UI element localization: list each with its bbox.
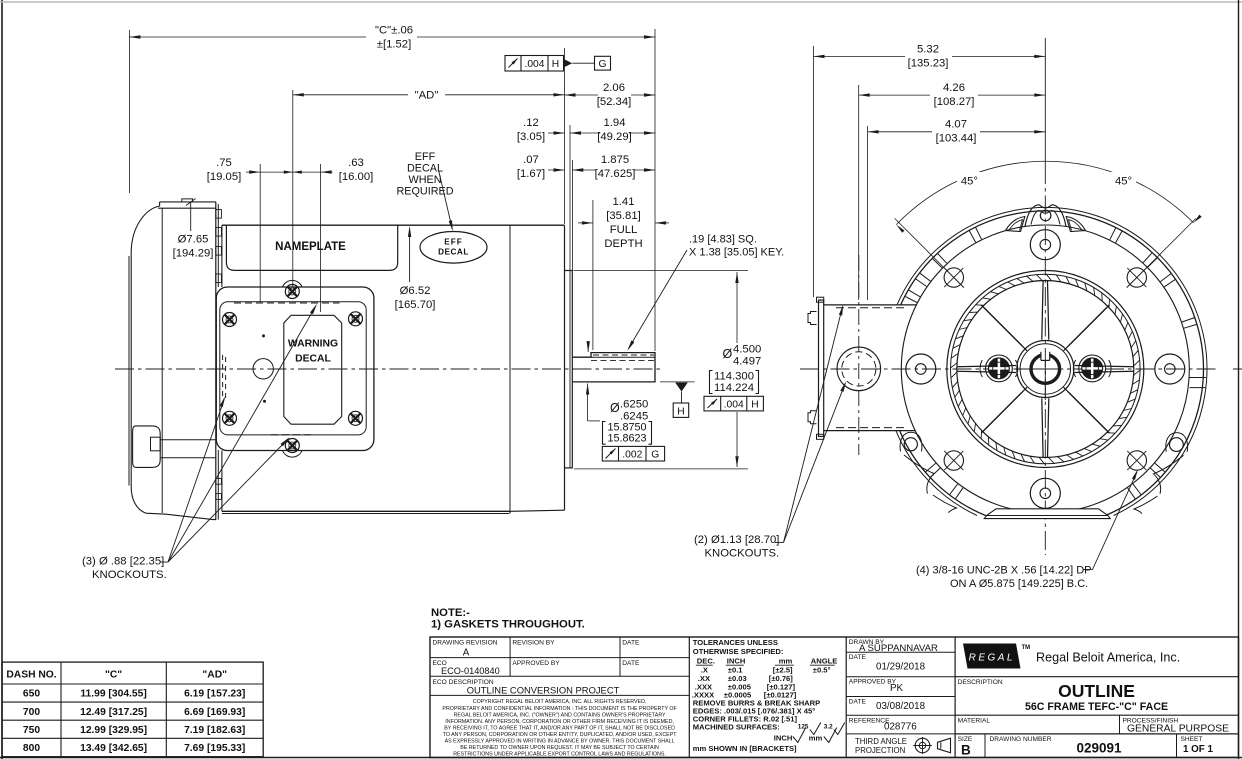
svg-text:114.224: 114.224 [714,382,754,394]
svg-text:COPYRIGHT REGAL BELOIT AMERICA: COPYRIGHT REGAL BELOIT AMERICA, INC. ALL… [473,699,647,705]
svg-text:[1.67]: [1.67] [517,168,545,180]
svg-text:[49.29]: [49.29] [597,131,632,143]
bottom foot plate [984,509,1110,519]
svg-text:1.94: 1.94 [604,117,626,129]
fan cover louvers [216,210,222,219]
shaft key hidden lines [591,360,655,362]
45 degree construction lines [895,218,1196,287]
svg-text:ON A Ø5.875 [149.225] B.C.: ON A Ø5.875 [149.225] B.C. [950,578,1088,590]
svg-text:1 OF 1: 1 OF 1 [1183,744,1213,755]
svg-text:(2) Ø1.13 [28.70]: (2) Ø1.13 [28.70] [694,534,779,546]
svg-text:Regal Beloit America, Inc.: Regal Beloit America, Inc. [1036,651,1180,665]
svg-text:GENERAL PURPOSE: GENERAL PURPOSE [1127,724,1229,735]
svg-text:INCH: INCH [774,734,793,743]
svg-text:4.26: 4.26 [943,82,965,94]
svg-text:THIRD ANGLE: THIRD ANGLE [855,737,907,746]
svg-text:3.2: 3.2 [824,724,833,731]
svg-text:DASH NO.: DASH NO. [6,669,56,680]
svg-text:TO ANY PERSON, CORPORATION OR: TO ANY PERSON, CORPORATION OR OTHER ENTI… [443,732,678,738]
dimension 4.07 [868,119,1046,300]
svg-text:APPROVED BY: APPROVED BY [512,660,560,667]
svg-text:1.875: 1.875 [601,154,629,166]
dimension 1.94 and .12 [517,117,655,143]
svg-text:INFORMATION. ANY PERSON, CORPO: INFORMATION. ANY PERSON, CORPORATION OR … [445,719,674,725]
svg-text:mm: mm [809,734,823,743]
fan cover bottom clip [133,426,161,468]
end view ring fins [905,227,1206,498]
svg-text:03/08/2018: 03/08/2018 [876,701,926,712]
svg-text:[194.29]: [194.29] [173,248,214,260]
svg-text:6.19 [157.23]: 6.19 [157.23] [184,689,245,700]
svg-text:[19.05]: [19.05] [207,171,242,183]
svg-text:01/29/2018: 01/29/2018 [876,662,926,673]
tapped holes note (4) [916,469,1138,590]
conduit box corner screws [223,312,363,426]
svg-text:±[1.52]: ±[1.52] [377,39,411,51]
svg-text:2.06: 2.06 [603,82,625,94]
dimension AD [293,90,565,288]
knockouts note (2) [694,304,846,559]
tolerance block [692,638,845,753]
svg-text:DATE: DATE [849,699,867,706]
svg-text:56C FRAME TEFC-"C" FACE: 56C FRAME TEFC-"C" FACE [1025,701,1168,713]
dimension 1.875 and .07 [517,154,655,180]
svg-text:KNOCKOUTS.: KNOCKOUTS. [705,548,780,560]
svg-text:12.99 [329.95]: 12.99 [329.95] [80,725,147,736]
dimension 2.06 shaft [565,48,656,270]
svg-text:REGAL BELOIT AMERICA, INC. ("O: REGAL BELOIT AMERICA, INC. ("OWNER") AND… [454,712,666,718]
svg-text:4.07: 4.07 [945,119,967,131]
svg-text:H: H [751,400,758,411]
dia 6.52 leader [395,226,436,311]
svg-text:[47.625]: [47.625] [595,168,636,180]
svg-text:NAMEPLATE: NAMEPLATE [275,241,346,253]
svg-text:.75: .75 [216,157,232,169]
svg-text:G: G [598,59,606,70]
EFF DECAL WHEN REQUIRED note [397,151,454,231]
C-face rabbet boss [565,271,573,468]
material row [955,715,1238,734]
svg-text:PROJECTION: PROJECTION [855,746,905,755]
svg-text:EFF: EFF [415,151,436,163]
end view cardinal holes [906,230,1185,509]
svg-text:.6250: .6250 [620,399,648,411]
svg-text:OTHERWISE SPECIFIED:: OTHERWISE SPECIFIED: [693,647,784,656]
knockout hole end view [837,347,881,391]
motor body [222,225,565,513]
svg-text:13.49 [342.65]: 13.49 [342.65] [80,743,147,754]
top lifting lug [1006,205,1086,232]
svg-text:DECAL: DECAL [407,163,443,175]
svg-text:Ø: Ø [610,401,620,415]
svg-text:DEC.: DEC. [697,657,715,666]
svg-text:OUTLINE CONVERSION PROJECT: OUTLINE CONVERSION PROJECT [467,685,620,696]
dimension 1.41 full depth [578,196,669,350]
svg-text:DECAL: DECAL [295,354,331,365]
svg-text:12.49 [317.25]: 12.49 [317.25] [80,707,147,718]
svg-text:DESCRIPTION: DESCRIPTION [958,679,1003,686]
svg-text:.X: .X [701,665,708,674]
svg-text:15.8750: 15.8750 [607,421,646,433]
side view: fan cover [129,199,221,520]
svg-text:.12: .12 [523,117,539,129]
svg-text:PK: PK [890,683,904,694]
bottom left lug [900,432,934,493]
svg-text:EFF: EFF [444,238,462,247]
svg-text:B: B [961,743,971,758]
svg-text:Ø7.65: Ø7.65 [178,234,209,246]
svg-text:TOLERANCES UNLESS: TOLERANCES UNLESS [693,638,778,647]
svg-text:mm: mm [779,657,793,666]
svg-text:OUTLINE: OUTLINE [1058,681,1135,701]
svg-text:RESTRICTIONS UNDER APPLICABLE: RESTRICTIONS UNDER APPLICABLE EXPORT CON… [453,752,666,758]
end view shaft with keyway [1027,351,1063,400]
end view flange and rabbet circles [947,271,1144,468]
fan cover lip tab [182,199,193,202]
svg-text:Ø6.52: Ø6.52 [400,285,431,297]
drawn by column [846,639,955,755]
general note [431,607,585,631]
svg-text:6.69 [169.93]: 6.69 [169.93] [184,707,245,718]
svg-text:ANGLE: ANGLE [811,657,838,666]
feature control frame .004 H shaft [704,396,763,411]
svg-text:REQUIRED: REQUIRED [397,186,454,198]
right side fin tab [1190,378,1206,388]
svg-text:MACHINED SURFACES:: MACHINED SURFACES: [693,723,780,732]
svg-text:.19 [4.83] SQ.: .19 [4.83] SQ. [689,234,757,246]
warning decal [284,315,342,424]
svg-text:114.300: 114.300 [714,371,754,383]
svg-text:H: H [552,59,559,70]
svg-text:ECO-0140840: ECO-0140840 [441,666,500,676]
svg-text:700: 700 [23,707,40,718]
svg-text:[52.34]: [52.34] [597,96,632,108]
conduit box [216,287,374,451]
svg-text:SHEET: SHEET [1181,736,1203,743]
svg-text:DRAWING REVISION: DRAWING REVISION [433,639,498,646]
knockout dashed lines [234,302,340,304]
dash number table [2,662,263,757]
dimension dia .6250 shaft [586,341,665,461]
dimension 5.32 [814,38,1046,297]
svg-text:INCH: INCH [727,657,746,666]
svg-text:AS EXPRESSLY APPROVED IN WRITI: AS EXPRESSLY APPROVED IN WRITING IN ADVA… [445,739,675,745]
svg-text:4.497: 4.497 [733,356,761,368]
datum H below shaft [660,382,695,418]
dia 7.65 leader [173,199,214,260]
svg-text:[135.23]: [135.23] [908,57,949,69]
svg-text:PROPRIETARY AND CONFIDENTIAL I: PROPRIETARY AND CONFIDENTIAL INFORMATION… [442,706,677,712]
logo cell [955,644,1238,677]
feature control frame .004 H top with datum G [505,56,611,72]
svg-text:A SUPPANNAVAR: A SUPPANNAVAR [859,643,938,654]
svg-text:[3.05]: [3.05] [517,131,545,143]
svg-text:1.41: 1.41 [613,196,635,208]
svg-text:.004: .004 [724,400,744,411]
svg-text:.002: .002 [622,450,642,461]
svg-text:800: 800 [23,743,40,754]
revision table [430,637,689,758]
description cell [955,679,1238,715]
svg-text:WARNING: WARNING [288,339,338,350]
svg-text:.07: .07 [523,154,539,166]
svg-text:DRAWING NUMBER: DRAWING NUMBER [990,736,1052,743]
end view 45deg tapped holes [944,268,1146,470]
rabbet hatch ticks [1134,360,1140,366]
svg-text:WHEN: WHEN [409,174,442,186]
conduit box top screw [283,280,303,298]
svg-text:REVISION BY: REVISION BY [512,639,555,646]
svg-text:[103.44]: [103.44] [936,133,977,145]
EFF decal ellipse [420,232,487,264]
svg-text:±0.5°: ±0.5° [813,665,831,674]
svg-text:45°: 45° [961,176,978,188]
dimension C overall [129,25,655,352]
svg-text:.63: .63 [348,157,364,169]
end view outer ring circles [896,207,1207,515]
key note [627,234,784,351]
svg-text:7.19 [182.63]: 7.19 [182.63] [184,725,245,736]
svg-text:Ø: Ø [723,347,733,361]
45 degree arc dimension [896,161,1201,233]
svg-text:KNOCKOUTS.: KNOCKOUTS. [92,569,167,581]
side view centerline [115,368,663,370]
svg-text:mm SHOWN IN [BRACKETS]: mm SHOWN IN [BRACKETS] [693,744,797,753]
svg-text:.004: .004 [524,59,544,70]
end view hub screws [980,355,1111,382]
svg-text:15.8623: 15.8623 [607,433,646,445]
feature control frame .002 G [602,446,664,461]
svg-text:"C"±.06: "C"±.06 [375,25,413,37]
svg-text:[35.81]: [35.81] [606,210,641,222]
svg-text:[±2.5]: [±2.5] [773,665,793,674]
conduit box bottom screw [283,439,303,458]
dimension dia 4.500 face rabbet [574,271,762,469]
svg-text:"AD": "AD" [202,669,227,680]
end view hub [1017,341,1074,398]
svg-text:DATE: DATE [622,660,640,667]
svg-text:028776: 028776 [884,721,917,732]
nameplate [226,225,397,270]
svg-text:H: H [677,407,684,418]
svg-text:45°: 45° [1115,176,1132,188]
svg-text:A: A [463,647,470,658]
bottom scallops [933,495,1158,514]
svg-text:11.99 [304.55]: 11.99 [304.55] [80,689,146,700]
shaft [572,353,655,382]
svg-text:DATE: DATE [622,639,640,646]
knockouts note (3) [82,304,317,581]
svg-text:FULL: FULL [610,224,638,236]
svg-text:"C": "C" [105,669,122,680]
drawing number row [958,734,1214,758]
svg-text:REGAL: REGAL [969,652,1015,663]
svg-text:DATE: DATE [849,654,867,661]
end view centerlines [800,165,1216,555]
dimension .75 [207,157,333,312]
svg-text:[16.00]: [16.00] [339,171,374,183]
svg-text:NOTE:-: NOTE:- [431,607,470,619]
svg-text:(3) Ø .88 [22.35]: (3) Ø .88 [22.35] [82,556,164,568]
dimension .63 [339,157,374,183]
svg-text:1) GASKETS THROUGHOUT.: 1) GASKETS THROUGHOUT. [431,619,585,631]
svg-text:TM: TM [1022,645,1031,651]
svg-text:BY RECEIVING IT, TO AGREE THAT: BY RECEIVING IT, TO AGREE THAT IT, AND/O… [444,725,675,731]
svg-text:7.69 [195.33]: 7.69 [195.33] [184,743,245,754]
end view spokes [957,281,1134,458]
svg-text:BE RETURNED TO OWNER UPON REQU: BE RETURNED TO OWNER UPON REQUEST. IT MA… [460,745,659,751]
svg-text:±0.1: ±0.1 [728,665,744,674]
title block frame [430,637,1239,758]
svg-text:[108.27]: [108.27] [934,96,975,108]
bottom right lug [1154,433,1188,494]
svg-text:X 1.38 [35.05] KEY.: X 1.38 [35.05] KEY. [689,247,784,259]
end view conduit box side [808,255,916,455]
svg-text:5.32: 5.32 [917,44,939,56]
conduit box hole [253,359,273,379]
svg-text:MATERIAL: MATERIAL [958,717,991,724]
svg-text:DEPTH: DEPTH [604,238,642,250]
svg-text:650: 650 [23,689,40,700]
svg-text:G: G [651,450,659,461]
svg-text:029091: 029091 [1076,741,1122,756]
svg-text:4.500: 4.500 [733,344,761,356]
svg-text:DECAL: DECAL [438,248,469,257]
svg-text:750: 750 [23,725,40,736]
svg-text:125: 125 [798,724,809,731]
svg-text:[165.70]: [165.70] [395,299,436,311]
top lug side wings [1006,217,1025,232]
third angle projection symbol [915,738,930,753]
dimension 4.26 [859,82,1046,300]
svg-text:(4) 3/8-16 UNC-2B X .56 [14.22: (4) 3/8-16 UNC-2B X .56 [14.22] DP [916,565,1091,577]
conduit box flange bolts [808,312,817,325]
svg-text:"AD": "AD" [415,90,439,102]
